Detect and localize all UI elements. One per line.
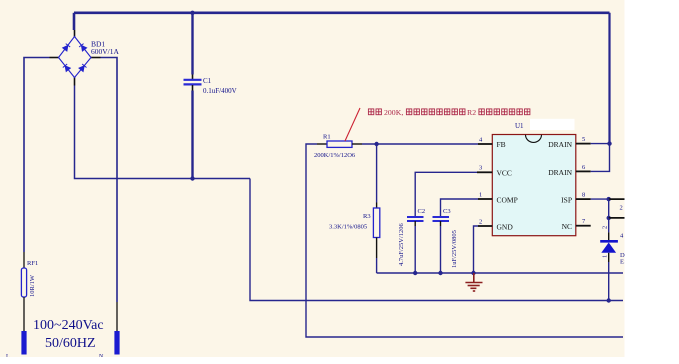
connector pin N bar — [114, 331, 119, 355]
svg-text:200K/1%/12O6: 200K/1%/12O6 — [314, 152, 356, 159]
red annotation line — [345, 108, 360, 141]
junction C2 bottom — [413, 271, 417, 275]
svg-text:2: 2 — [620, 205, 623, 212]
wire FB net R1 to pin4 — [362, 143, 478, 145]
wire pin8 ISP — [591, 198, 609, 200]
stub to clipped pin 4 — [609, 217, 626, 219]
junction R1/R3 — [374, 142, 378, 146]
svg-text:200K,: 200K, — [384, 108, 403, 117]
pin 5 DRAIN — [576, 143, 591, 145]
diode D (output) — [600, 218, 618, 301]
svg-text:1uF/25V/0805: 1uF/25V/0805 — [451, 230, 458, 268]
svg-text:3: 3 — [479, 165, 482, 172]
pin 7 NC — [576, 225, 591, 227]
pin 4 FB — [478, 143, 492, 145]
fuse RF1 body — [21, 268, 26, 297]
ground — [465, 273, 482, 291]
svg-text:2: 2 — [602, 226, 609, 229]
svg-text:R1: R1 — [323, 134, 331, 141]
svg-text:COMP: COMP — [497, 196, 518, 205]
svg-text:GND: GND — [497, 223, 514, 232]
svg-text:C3: C3 — [443, 208, 451, 215]
wire bridge left to fuse — [24, 58, 50, 253]
U1 notch — [526, 135, 542, 143]
svg-text:10R/1W: 10R/1W — [29, 274, 36, 297]
pin 1 COMP — [478, 198, 492, 200]
svg-text:1: 1 — [602, 255, 609, 258]
wire down from (250,178) to y=300 and right — [250, 179, 623, 301]
svg-text:2: 2 — [479, 219, 482, 226]
svg-text:100~240Vac: 100~240Vac — [33, 318, 104, 333]
wire GND pin to ground — [474, 226, 479, 273]
white cover bottom — [0, 357, 679, 364]
resistor R1 — [317, 141, 362, 147]
diode top-left — [63, 44, 71, 52]
junction C1 bottom — [190, 176, 194, 180]
pin 2 GND — [478, 225, 492, 227]
capacitor C3 — [433, 199, 479, 273]
svg-text:VCC: VCC — [497, 169, 512, 178]
svg-text:NC: NC — [562, 222, 572, 231]
diode top-right — [79, 44, 87, 52]
svg-text:RF1: RF1 — [27, 260, 38, 267]
pin 8 ISP — [576, 198, 591, 200]
pin 6 DRAIN — [576, 170, 591, 172]
stub to clipped pin 2 — [609, 198, 626, 200]
capacitor C2 — [407, 172, 477, 273]
junction ISP — [607, 197, 611, 201]
junction C3 bottom — [438, 271, 442, 275]
svg-text:FB: FB — [497, 140, 506, 149]
fuse RF1 stub top — [23, 252, 25, 268]
junction pin5 — [607, 141, 611, 145]
diode bottom-left — [63, 64, 71, 72]
svg-text:R3: R3 — [363, 213, 371, 220]
white cover right — [625, 0, 679, 364]
wire right vertical to pin6 — [591, 144, 610, 172]
wire top rail to bridge top — [73, 13, 76, 30]
wire bridge bottom down and right — [75, 86, 251, 179]
bridge rectifier BD1 — [50, 30, 101, 86]
svg-text:R2: R2 — [467, 108, 476, 117]
capacitor C1 — [184, 13, 202, 179]
junction mid — [607, 216, 611, 220]
svg-text:DRAIN: DRAIN — [548, 168, 572, 177]
junction ground — [471, 271, 475, 275]
svg-text:DRAIN: DRAIN — [548, 140, 572, 149]
wire R1 left down to bottom rail — [306, 144, 623, 337]
svg-text:0.1uF/400V: 0.1uF/400V — [203, 87, 237, 95]
svg-text:600V/1A: 600V/1A — [91, 47, 120, 56]
svg-text:C1: C1 — [203, 77, 212, 85]
wire top rail — [74, 12, 610, 15]
svg-text:U1: U1 — [515, 122, 524, 130]
wire bridge right to N — [101, 58, 118, 303]
wire N black stub — [116, 302, 118, 332]
pin 3 VCC — [477, 171, 492, 173]
svg-text:5: 5 — [582, 136, 585, 143]
wire gnd rail y273 — [377, 272, 623, 274]
junction diode bottom — [607, 298, 611, 302]
svg-text:3.3K/1%/0805: 3.3K/1%/0805 — [329, 224, 367, 231]
white cover above U1 — [530, 119, 575, 130]
diode bottom-right — [79, 64, 87, 72]
svg-text:C2: C2 — [418, 208, 426, 215]
svg-text:8: 8 — [582, 192, 585, 199]
svg-text:1: 1 — [479, 192, 482, 199]
wire fuse to L pin — [23, 297, 25, 332]
svg-text:50/60HZ: 50/60HZ — [45, 336, 96, 351]
wire right vertical from rail to pin5 — [608, 13, 610, 144]
junction C1 top — [190, 11, 194, 15]
connector pin L bar — [21, 331, 26, 355]
svg-text:4.7uF/25V/1206: 4.7uF/25V/1206 — [398, 222, 405, 266]
wire pin5 to right vertical — [591, 143, 610, 145]
op-amp U1 body — [492, 135, 576, 236]
svg-text:ISP: ISP — [561, 196, 572, 205]
wire ISP down — [608, 199, 610, 218]
resistor R3 — [373, 144, 379, 273]
